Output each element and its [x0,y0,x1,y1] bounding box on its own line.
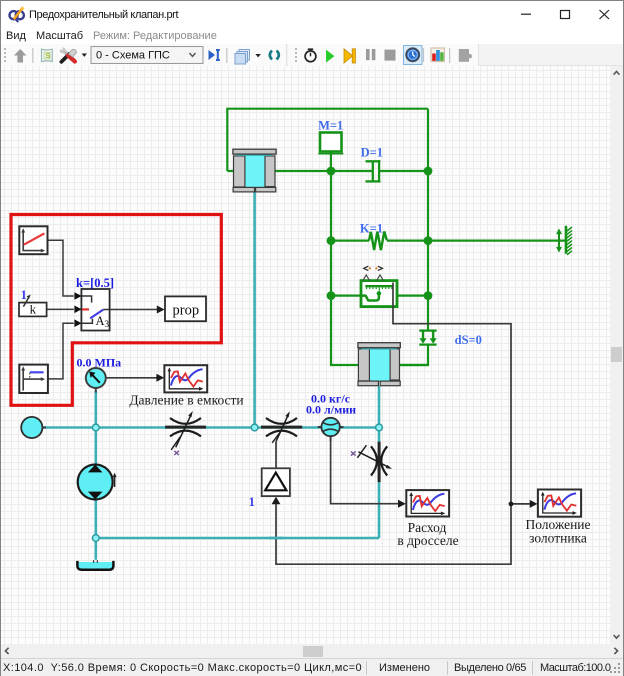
svg-text:1: 1 [21,288,27,302]
wire step to A3 [48,323,74,379]
wire valve sensor feedback [276,283,511,565]
svg-text:dS=0: dS=0 [455,333,482,347]
wire ramp to A3 [48,240,74,296]
svg-text:M=1: M=1 [318,118,343,132]
wire k to A3 [47,308,74,310]
wire top loop [227,109,428,171]
block wires [47,240,157,379]
wire pump to node [95,500,98,560]
clock button (selected) [404,46,423,65]
pause icon [366,49,375,60]
svg-text:золотника: золотника [529,531,587,546]
valve U1 [361,281,397,307]
wire right vertical [427,109,429,331]
wall ground [566,226,572,255]
mass M=1 [318,133,343,154]
throttle V1 [165,411,206,455]
wire cylinder1 rod [253,188,256,428]
svg-text:Давление в емкости: Давление в емкости [129,393,243,408]
wire gauge drop [95,391,98,428]
wire right vertical lower [400,345,428,366]
wire pump feed [95,428,98,465]
red highlight frame [11,215,221,406]
wire spring row left [331,240,369,242]
grip 2 [295,48,297,62]
blue labels [318,118,482,347]
stop icon [385,50,396,61]
valve port marks [364,266,383,270]
wire damper to right vertical [379,170,428,172]
svg-text:k: k [30,302,37,317]
anchor double arrow [556,229,562,253]
wire overpass return line [269,537,283,540]
svg-text:K=1: K=1 [360,221,383,235]
wire delta to throttle [275,441,277,468]
wire cylinder2 rod [378,386,381,538]
wire node to scope3 [511,503,531,505]
throttle V3 (vertical) [351,442,392,482]
teal junction nodes [92,424,382,541]
selector A3 block [74,289,109,331]
tank inlet T1 [21,417,42,438]
svg-text:D=1: D=1 [361,145,383,159]
node J1 [509,502,514,507]
mass stem [330,152,332,172]
window buttons [491,1,623,28]
bottom scrollbar [1,644,623,658]
damper D=1 [366,160,381,182]
pressure gauge [86,368,106,393]
wire main pressure line [42,426,379,429]
svg-text:0 - Схема ГПС: 0 - Схема ГПС [96,50,170,62]
arrowheads [156,374,537,508]
grip 1 [4,48,6,62]
svg-text:в дросселе: в дросселе [397,533,458,548]
wire damper row [227,170,372,172]
wire valve row [331,295,428,297]
sensor dS [419,331,436,345]
svg-text:k=[0.5]: k=[0.5] [76,276,114,290]
up arrow icon [14,49,27,63]
delta box F1 [262,468,290,496]
step-run icon [209,50,220,60]
script icon [42,49,53,61]
layers icon [235,50,250,65]
signal wires [106,283,531,565]
right scrollbar [610,66,623,644]
prop block [157,296,206,321]
black labels [129,393,590,549]
step source block [19,365,48,393]
cylinder C1 (solenoid) [233,149,276,192]
toolbar [1,44,623,66]
wire A3 to prop [110,309,157,311]
svg-text:S: S [45,51,50,60]
menu bar [1,28,623,44]
play icon [326,50,334,63]
wire return line [96,537,379,540]
scope Расход [406,490,449,516]
scope Давление [164,365,207,392]
title bar [1,1,623,28]
svg-text:1: 1 [249,495,255,509]
pump P1 [78,465,117,500]
wire flowmeter to scope [331,441,399,504]
svg-text:prop: prop [173,303,200,319]
svg-text:0.0 л/мин: 0.0 л/мин [306,402,356,416]
scope Положение [538,490,581,517]
gray report icon [459,49,472,62]
wire gauge to scope [106,377,158,379]
throttle V2 [261,411,302,443]
cylinder C2 [358,343,400,386]
valve pin carets [363,275,384,281]
gain k block [19,295,47,317]
status bar [1,658,623,676]
tank T2 [77,560,113,570]
wrench and hammer icon [59,46,77,62]
play-to-end icon [344,49,355,63]
svg-text:0.0 МПа: 0.0 МПа [77,355,122,369]
stopwatch icon [305,49,316,62]
code/refresh teal icon [270,51,279,60]
ramp source block [19,226,47,254]
chart icon [431,48,444,62]
green junction nodes [327,167,433,300]
hydraulic teal wires [42,188,379,560]
wire left vertical [331,171,428,365]
spring K=1 [369,232,387,251]
flow meter FM [318,418,344,441]
wire spring row right [387,240,566,242]
combobox [91,47,203,64]
